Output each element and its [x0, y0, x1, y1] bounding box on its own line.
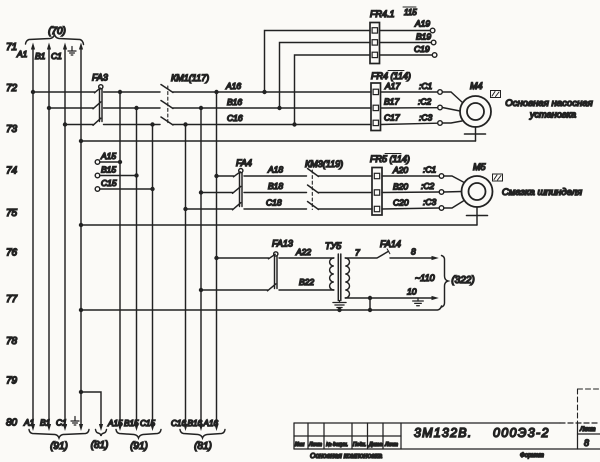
svg-text:C16: C16: [171, 419, 186, 428]
title block frame corner dashed: [578, 389, 600, 423]
wire B17 to terminal :C2: [381, 97, 443, 110]
drop wire to C15: [152, 125, 154, 425]
wire B after FA3 to KM1: [104, 106, 161, 110]
svg-text:75: 75: [6, 208, 18, 219]
svg-text:М4: М4: [470, 81, 483, 91]
svg-text:установка: установка: [529, 110, 576, 120]
thermal relay FR4 heaters: [371, 71, 411, 131]
svg-text:B1: B1: [40, 418, 51, 428]
wire tap B18: [199, 190, 233, 194]
svg-text:Смазка шпинделя: Смазка шпинделя: [502, 187, 582, 198]
circuit breaker FA4: [233, 158, 252, 210]
svg-text:A17: A17: [384, 81, 400, 91]
title block: [294, 423, 600, 449]
svg-text:(81): (81): [91, 440, 109, 451]
brace (322): [442, 256, 475, 308]
ground wire to M5 frame: [79, 223, 477, 227]
wire B20 to terminal :C2: [382, 181, 444, 194]
svg-text:C1: C1: [56, 418, 67, 428]
svg-text:C1: C1: [51, 51, 62, 61]
circuit breaker FA13: [268, 239, 293, 291]
earth symbol on wire 10: [413, 298, 424, 306]
svg-text:Изм: Изм: [295, 442, 305, 448]
wire B19 with terminal: [380, 32, 436, 45]
circuit breaker FA14: [378, 239, 401, 258]
contactor KM3(119) contacts: [305, 159, 343, 210]
svg-text:FR4 (114): FR4 (114): [371, 71, 411, 81]
svg-text:(91): (91): [130, 441, 148, 452]
wire A after FA3 to KM1: [104, 90, 161, 94]
svg-text:Подп.: Подп.: [353, 442, 366, 448]
svg-text:Дата: Дата: [368, 442, 382, 448]
wire tap A22: [214, 256, 268, 260]
wire C19 with terminal: [380, 44, 437, 57]
svg-text:B22: B22: [299, 277, 314, 287]
svg-text:A19: A19: [414, 19, 430, 29]
svg-text:B18: B18: [268, 181, 283, 191]
wire 10 output with arrow: [345, 287, 439, 301]
svg-text:80: 80: [6, 418, 18, 429]
label: main pump unit: [505, 98, 593, 120]
wire tap B22: [199, 288, 268, 292]
brace (91) under A15 B15 C15: [116, 430, 161, 453]
svg-text:8: 8: [411, 247, 416, 257]
wire C17 to terminal :C3: [381, 113, 443, 126]
svg-text:A22: A22: [295, 247, 311, 257]
svg-text:B16: B16: [227, 97, 242, 107]
bus C1 (phase C incoming): [51, 43, 67, 432]
svg-text:73: 73: [6, 124, 18, 135]
sheet number cell: [579, 427, 595, 448]
svg-text:8: 8: [584, 438, 589, 448]
svg-text::C3: :C3: [419, 113, 433, 123]
svg-text:B19: B19: [416, 32, 431, 42]
contactor KM1(117) main contacts: [161, 73, 209, 125]
svg-text:7: 7: [355, 248, 360, 258]
motor M4: [460, 81, 491, 127]
M5 frame earth: [467, 207, 488, 225]
bottom terminal labels A15 B15 C15: [107, 419, 155, 431]
svg-text:10: 10: [407, 287, 417, 297]
svg-text:C16: C16: [227, 113, 243, 123]
wire phase C row 73 from bus to FA3: [63, 122, 93, 126]
svg-text:FA14: FA14: [380, 239, 401, 249]
svg-text:76: 76: [6, 248, 18, 259]
svg-text:(81): (81): [194, 441, 212, 452]
riser to FR4.1 phase A: [265, 31, 371, 93]
svg-text:77: 77: [6, 294, 18, 305]
motor M5 leads: [444, 176, 464, 208]
svg-text:A16: A16: [225, 81, 241, 91]
svg-text:(322): (322): [451, 275, 474, 286]
smudged text below title block: [310, 453, 544, 460]
drop wire to B15: [136, 108, 138, 425]
wire phase B from bus to FA3: [47, 106, 93, 110]
svg-text:КМ1(117): КМ1(117): [171, 73, 209, 83]
transformer TV5: [325, 241, 350, 301]
riser to FR4.1 phase B: [280, 43, 371, 109]
bus PE ground conductor: [79, 43, 83, 432]
svg-text:Формат: Формат: [520, 453, 544, 459]
svg-text:B1: B1: [35, 51, 46, 61]
svg-text::C2: :C2: [418, 97, 432, 107]
ground wire row 77: [79, 298, 442, 312]
svg-text:C15: C15: [101, 178, 117, 188]
wire A20 to terminal :C1: [382, 165, 444, 179]
bottom terminal labels C16 B16 A16: [171, 419, 219, 431]
wire B22 to transformer: [279, 277, 334, 290]
svg-text::C1: :C1: [423, 165, 437, 175]
svg-text:A1: A1: [23, 418, 35, 428]
bus A1 (phase A incoming): [16, 43, 35, 432]
wire B18 FA4 to KM3: [244, 181, 307, 193]
svg-text:3М132В.: 3М132В.: [414, 426, 472, 440]
svg-text:C20: C20: [393, 198, 409, 208]
wire tap A18: [214, 174, 233, 178]
svg-text:(91): (91): [50, 441, 68, 452]
brace (70) over incoming buses: [26, 26, 84, 45]
svg-text:B17: B17: [384, 97, 399, 107]
svg-text:FR5 (114): FR5 (114): [370, 154, 410, 164]
svg-text:000Э3-2: 000Э3-2: [493, 426, 550, 440]
drop wire A16: [216, 92, 218, 425]
svg-text:79: 79: [6, 376, 18, 387]
terminal C15: [95, 178, 155, 191]
motor M4 leads: [442, 92, 462, 123]
brace (81) under C16 B16 A16: [180, 430, 225, 453]
wire A22 to transformer: [279, 247, 334, 258]
svg-text:Основная насосная: Основная насосная: [505, 98, 593, 109]
drop wire C16: [185, 125, 187, 425]
svg-text:М5: М5: [473, 162, 486, 172]
svg-text:74: 74: [6, 166, 18, 177]
drop wire B16: [200, 108, 202, 425]
svg-text:КМ3(119): КМ3(119): [305, 159, 343, 169]
wire A17 to terminal :C1: [381, 81, 443, 94]
bus B1 (phase B incoming): [35, 43, 51, 432]
earth symbol label top: [68, 47, 76, 56]
wire A18 FA4 to KM3: [244, 165, 307, 177]
svg-text:Лист: Лист: [579, 427, 595, 433]
wire tap C18: [183, 207, 232, 211]
wires KM3 to FR5: [319, 176, 373, 209]
svg-text:FA13: FA13: [272, 239, 293, 249]
wire 7 secondary to FA14: [345, 248, 377, 259]
svg-text:A1: A1: [16, 49, 28, 59]
PE branch to (81): [79, 390, 109, 451]
svg-text:A18: A18: [267, 165, 283, 175]
svg-text::C1: :C1: [419, 81, 433, 91]
terminal B15: [95, 165, 139, 178]
wire B16: [173, 97, 371, 110]
thermal relay FR4.1 heaters: [370, 7, 417, 64]
svg-text:(70): (70): [48, 26, 66, 37]
svg-text:Основная компоновка: Основная компоновка: [310, 453, 382, 460]
svg-text:C18: C18: [266, 198, 282, 208]
wire C after FA3 to KM1: [104, 122, 161, 126]
wire C18 FA4 to KM3: [244, 198, 307, 210]
wire C16: [173, 113, 371, 127]
M4 tag box: [491, 91, 501, 98]
M4 frame earth: [465, 127, 486, 141]
svg-text:FA4: FA4: [236, 158, 252, 168]
riser to FR4.1 phase C: [295, 55, 371, 125]
svg-text::C2: :C2: [421, 181, 435, 191]
thermal relay FR5 heaters: [370, 154, 410, 216]
svg-text:FA3: FA3: [92, 73, 108, 83]
wire phase A row 72 from bus to FA3: [31, 90, 95, 94]
wire 8 output with arrow: [390, 247, 439, 261]
svg-text:№ докум.: № докум.: [326, 442, 348, 448]
svg-text:~110: ~110: [415, 273, 435, 283]
title small cells text: [295, 442, 398, 448]
transformer core earth: [333, 301, 346, 311]
svg-text:115: 115: [404, 8, 417, 17]
earth symbol label bottom: [71, 417, 79, 426]
brace (91) under A1 B1 C1 PE: [29, 430, 89, 453]
motor M5: [462, 162, 493, 207]
svg-text:B15: B15: [101, 165, 116, 175]
circuit breaker FA3: [92, 73, 108, 126]
wire C20 to terminal :C3: [382, 197, 444, 210]
wire A16: [173, 81, 371, 94]
svg-text:A15: A15: [100, 151, 116, 161]
svg-text:ТУ5: ТУ5: [325, 241, 342, 251]
svg-text:C19: C19: [414, 44, 430, 54]
svg-text:Лист: Лист: [384, 442, 398, 448]
svg-text:A20: A20: [392, 165, 408, 175]
drop wire to A15: [119, 92, 121, 425]
svg-text::C3: :C3: [423, 197, 437, 207]
terminal A15: [95, 151, 122, 164]
svg-text:72: 72: [6, 83, 18, 94]
M5 tag box: [493, 174, 503, 181]
ground wire to M4 frame: [79, 139, 476, 143]
svg-text:C17: C17: [384, 113, 400, 123]
svg-text:Лист: Лист: [308, 442, 322, 448]
svg-text:71: 71: [6, 42, 17, 53]
wire A19 with terminal: [380, 19, 435, 33]
svg-text:FR4.1: FR4.1: [370, 9, 395, 19]
svg-text:B20: B20: [393, 182, 408, 192]
svg-text:78: 78: [6, 336, 18, 347]
